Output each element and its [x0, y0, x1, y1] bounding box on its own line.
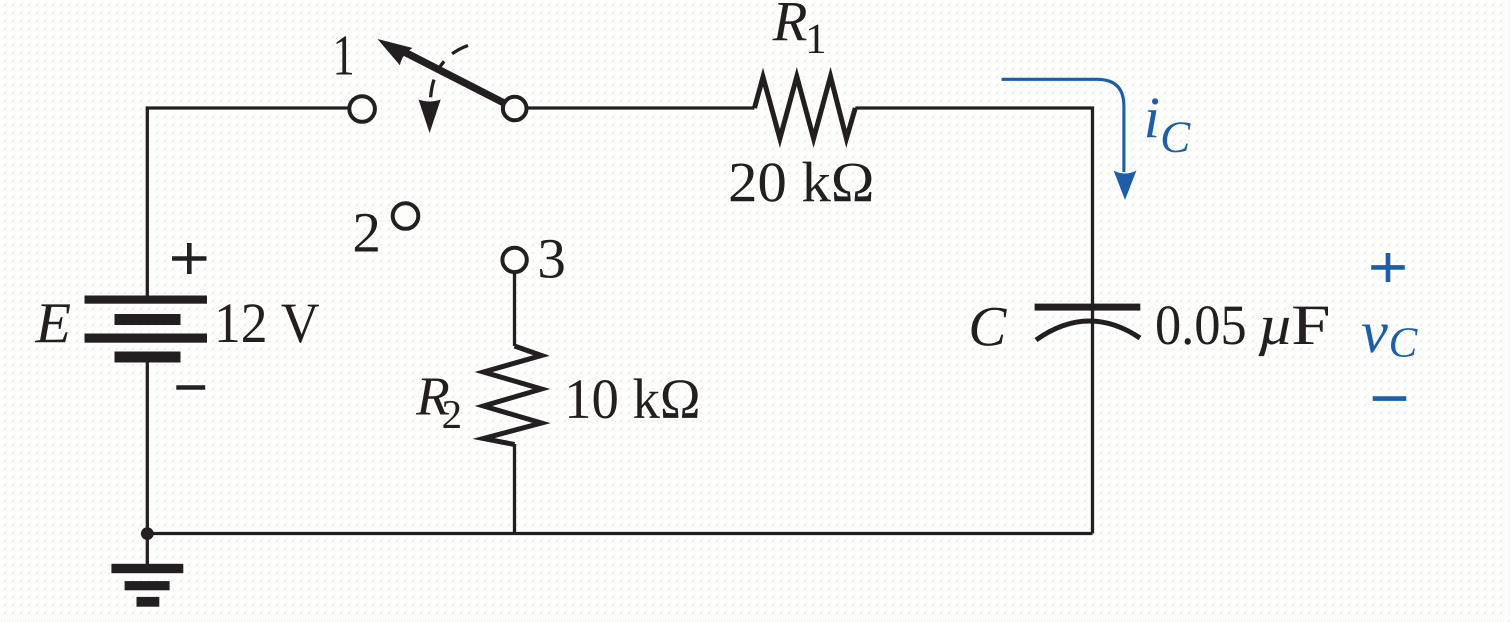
- battery value 12 V: [219, 304, 319, 343]
- wire top rail to switch contact 1: [146, 106, 349, 109]
- resistor R2 zigzag: [484, 346, 542, 445]
- capacitor flat plate: [1035, 304, 1141, 311]
- resistor R2 letter: [416, 378, 449, 414]
- capacitor voltage plus sign (blue): [1371, 253, 1405, 282]
- resistor R1 zigzag: [755, 77, 856, 139]
- wire bottom rail: [147, 532, 1092, 535]
- current arrow iC (blue): [1002, 79, 1124, 172]
- battery minus sign: [176, 385, 205, 390]
- capacitor value F: [1293, 307, 1328, 344]
- switch label 3: [540, 240, 564, 278]
- battery plate 2 (short): [115, 314, 181, 325]
- junction dot at ground node: [141, 527, 154, 540]
- capacitor voltage minus sign (blue): [1373, 396, 1407, 401]
- switch rotation arrowhead (down): [419, 100, 441, 134]
- capacitor label C: [972, 308, 1007, 346]
- switch contact 2 circle: [393, 203, 419, 229]
- voltage label v: [1362, 324, 1388, 352]
- voltage label subscript C: [1391, 328, 1418, 357]
- current label i: [1147, 98, 1158, 137]
- battery plus sign: [172, 243, 207, 274]
- wire switch contact 3 to R2: [513, 272, 516, 347]
- switch arm blade: [404, 52, 505, 104]
- capacitor curved plate: [1036, 321, 1140, 340]
- resistor R2 value 10 kOhm: [569, 378, 698, 418]
- resistor R2 subscript 2: [443, 401, 459, 428]
- switch label 1: [336, 36, 352, 74]
- ground bar 3: [137, 597, 160, 607]
- capacitor value 0.05: [1157, 306, 1245, 345]
- switch contact 1 circle: [349, 96, 375, 122]
- battery plate 4 (short): [115, 352, 181, 363]
- resistor R1 subscript 1: [809, 25, 824, 53]
- battery plate 1 (long top): [85, 296, 208, 304]
- ground bar 2: [125, 581, 170, 590]
- wire R1 to top-right corner, right vertical through capacitor: [855, 108, 1092, 534]
- battery label E: [35, 304, 70, 342]
- current label subscript C: [1163, 122, 1191, 152]
- switch pivot circle: [503, 97, 527, 121]
- wire switch pivot to R1: [526, 106, 755, 109]
- wire battery bottom to ground node: [146, 361, 149, 565]
- wire R2 to bottom rail: [513, 444, 516, 534]
- capacitor value mu: [1258, 318, 1289, 356]
- wire left vertical (battery top to top rail): [146, 108, 149, 297]
- resistor R1 letter: [772, 3, 806, 40]
- resistor R1 value 20 kOhm: [731, 162, 872, 202]
- ground bar 1: [111, 564, 183, 573]
- switch contact 3 circle: [502, 248, 526, 272]
- switch arm arrowhead: [378, 39, 413, 65]
- switch label 2: [355, 214, 378, 252]
- battery plate 3 (long): [85, 334, 208, 343]
- switch rotation dashed arc: [431, 46, 469, 100]
